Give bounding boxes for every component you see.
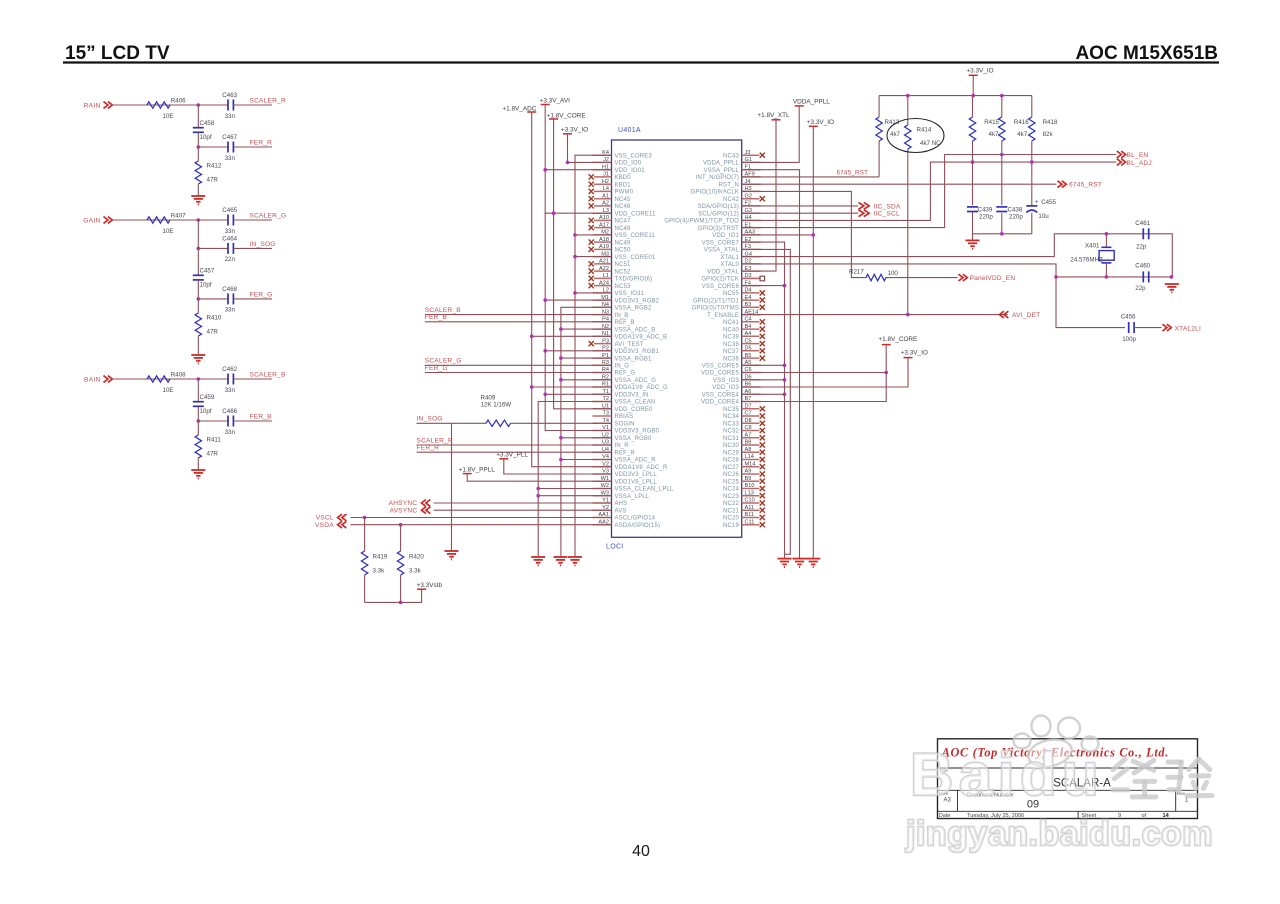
- svg-text:C455: C455: [1041, 199, 1056, 206]
- svg-text:VDD3V3_LPLL: VDD3V3_LPLL: [615, 472, 658, 478]
- svg-text:AVI_TEST: AVI_TEST: [615, 342, 644, 348]
- svg-text:NC29: NC29: [723, 450, 739, 456]
- svg-text:VSS_CORE7: VSS_CORE7: [702, 240, 740, 246]
- svg-text:NC27: NC27: [723, 465, 739, 471]
- svg-text:R415: R415: [984, 119, 999, 126]
- svg-text:BAIN: BAIN: [84, 376, 101, 383]
- svg-text:VDD_CORE0: VDD_CORE0: [615, 407, 654, 413]
- svg-text:R419: R419: [373, 554, 388, 561]
- svg-text:FER_R: FER_R: [250, 139, 273, 146]
- svg-text:4k7: 4k7: [989, 131, 1000, 138]
- svg-text:NC42: NC42: [723, 197, 739, 203]
- svg-text:AVI_DET: AVI_DET: [1012, 312, 1040, 319]
- svg-text:220p: 220p: [1009, 214, 1023, 221]
- svg-text:+1.8V_CORE: +1.8V_CORE: [878, 336, 917, 343]
- svg-text:47R: 47R: [207, 329, 219, 336]
- svg-text:+3.3V_IO: +3.3V_IO: [966, 68, 993, 75]
- svg-text:C463: C463: [222, 92, 237, 99]
- svg-text:NC40: NC40: [723, 327, 739, 333]
- svg-text:NC38: NC38: [723, 342, 739, 348]
- svg-text:R414: R414: [917, 127, 932, 134]
- svg-text:SCL/GPIO(12): SCL/GPIO(12): [698, 211, 739, 217]
- svg-text:IN_G: IN_G: [615, 364, 630, 370]
- svg-text:R409: R409: [481, 394, 496, 401]
- svg-text:VDD_IO1: VDD_IO1: [712, 233, 739, 239]
- svg-text:GPIO(3)/TRST: GPIO(3)/TRST: [698, 226, 740, 232]
- svg-text:XTAL0: XTAL0: [720, 262, 739, 268]
- svg-text:FER_G: FER_G: [250, 291, 273, 298]
- svg-text:C457: C457: [200, 268, 215, 275]
- svg-text:+3.3Vstb: +3.3Vstb: [417, 582, 443, 589]
- svg-text:NC49: NC49: [615, 240, 631, 246]
- svg-text:C461: C461: [1135, 220, 1150, 227]
- svg-text:+3.3V_PLL: +3.3V_PLL: [496, 451, 528, 458]
- svg-text:SCALER_G: SCALER_G: [250, 212, 287, 219]
- svg-text:C459: C459: [200, 394, 215, 401]
- svg-text:4k7: 4k7: [1017, 131, 1028, 138]
- svg-text:100p: 100p: [1122, 336, 1136, 343]
- svg-text:NC32: NC32: [723, 429, 739, 435]
- svg-text:R217: R217: [849, 269, 864, 276]
- svg-text:Baidu: Baidu: [910, 741, 1104, 808]
- svg-text:NC48: NC48: [615, 226, 631, 232]
- svg-text:NC35: NC35: [723, 407, 739, 413]
- svg-text:+3.3V_IO: +3.3V_IO: [561, 127, 588, 134]
- svg-text:AOC M15X651B: AOC M15X651B: [1075, 43, 1218, 64]
- svg-text:220p: 220p: [979, 214, 993, 221]
- svg-text:KBD0: KBD0: [615, 175, 632, 181]
- svg-text:LOCI: LOCI: [606, 544, 624, 551]
- svg-text:GPIO(2)/TCK: GPIO(2)/TCK: [701, 277, 739, 283]
- svg-text:IN_SOG: IN_SOG: [417, 416, 443, 423]
- svg-text:VDDA_PPLL: VDDA_PPLL: [703, 161, 740, 167]
- svg-text:REF_G: REF_G: [615, 371, 636, 377]
- svg-text:10pf: 10pf: [200, 408, 212, 415]
- svg-text:NC24: NC24: [723, 487, 739, 493]
- svg-text:AVS: AVS: [615, 508, 627, 514]
- svg-text:INT_N/GPIO(7): INT_N/GPIO(7): [696, 175, 739, 181]
- svg-text:GPIO(0)/T0/TMS: GPIO(0)/T0/TMS: [692, 306, 739, 312]
- svg-text:10E: 10E: [163, 228, 174, 235]
- svg-text:6745_RST: 6745_RST: [1069, 182, 1102, 189]
- svg-text:KBD1: KBD1: [615, 182, 632, 188]
- svg-text:47R: 47R: [207, 451, 219, 458]
- svg-text:SDA/GPIO(13): SDA/GPIO(13): [698, 204, 739, 210]
- svg-text:C462: C462: [222, 366, 237, 373]
- svg-text:NC28: NC28: [723, 458, 739, 464]
- svg-text:C467: C467: [222, 134, 237, 141]
- svg-text:10E: 10E: [163, 387, 174, 394]
- svg-text:+1.8V_PPLL: +1.8V_PPLL: [459, 466, 496, 473]
- svg-text:jingyan.baidu.com: jingyan.baidu.com: [905, 815, 1213, 853]
- svg-text:10E: 10E: [163, 113, 174, 120]
- svg-text:12K 1/16W: 12K 1/16W: [481, 401, 512, 408]
- svg-text:3.3k: 3.3k: [409, 568, 422, 575]
- svg-text:RAIN: RAIN: [84, 102, 101, 109]
- svg-text:VSS_IO31: VSS_IO31: [615, 291, 645, 297]
- svg-text:NC36: NC36: [723, 356, 739, 362]
- svg-text:VSDA: VSDA: [315, 522, 334, 529]
- svg-text:VSSA_PPLL: VSSA_PPLL: [704, 168, 740, 174]
- svg-text:22p: 22p: [1135, 285, 1146, 292]
- svg-text:VSCL: VSCL: [316, 515, 334, 522]
- svg-text:VDD_CORE4: VDD_CORE4: [701, 400, 740, 406]
- svg-text:NC31: NC31: [723, 436, 739, 442]
- svg-text:FER_R: FER_R: [417, 445, 440, 452]
- svg-text:VSS_CORE6: VSS_CORE6: [702, 284, 740, 290]
- svg-text:VDD_CORE11: VDD_CORE11: [615, 211, 657, 217]
- svg-text:VSS_CORE4: VSS_CORE4: [702, 393, 740, 399]
- svg-text:33n: 33n: [225, 387, 236, 394]
- svg-text:+3.3V_IO: +3.3V_IO: [901, 350, 928, 357]
- svg-text:C468: C468: [222, 286, 237, 293]
- svg-text:VSSA_RGB0: VSSA_RGB0: [615, 436, 653, 442]
- svg-text:C465: C465: [222, 207, 237, 214]
- svg-text:AHS: AHS: [615, 501, 628, 507]
- svg-text:SCALER_R: SCALER_R: [250, 97, 286, 104]
- svg-text:VSSA_ADC_R: VSSA_ADC_R: [615, 458, 657, 464]
- svg-text:NC22: NC22: [723, 501, 739, 507]
- svg-text:82k: 82k: [1043, 131, 1054, 138]
- svg-text:VSSA_ADC_B: VSSA_ADC_B: [615, 327, 656, 333]
- svg-text:T_ENABLE: T_ENABLE: [707, 313, 739, 319]
- svg-text:47R: 47R: [207, 177, 219, 184]
- svg-text:PWM0: PWM0: [615, 190, 634, 196]
- svg-text:VSS_CORE11: VSS_CORE11: [615, 233, 656, 239]
- svg-text:22n: 22n: [225, 256, 236, 263]
- svg-text:NC46: NC46: [615, 204, 631, 210]
- svg-text:SCALER_G: SCALER_G: [425, 358, 462, 365]
- svg-text:+3.3V_IO: +3.3V_IO: [807, 119, 834, 126]
- svg-text:RST_N: RST_N: [719, 182, 739, 188]
- svg-text:NC30: NC30: [723, 443, 739, 449]
- svg-text:IN_SOG: IN_SOG: [250, 241, 276, 248]
- svg-text:NC52: NC52: [615, 269, 631, 275]
- svg-text:VDD3V3_RGB1: VDD3V3_RGB1: [615, 349, 660, 355]
- svg-text:33n: 33n: [225, 228, 236, 235]
- svg-text:R416: R416: [1014, 119, 1029, 126]
- svg-text:R411: R411: [207, 437, 222, 444]
- svg-text:C466: C466: [222, 408, 237, 415]
- svg-text:NC26: NC26: [723, 472, 739, 478]
- svg-text:24.576MHZ: 24.576MHZ: [1070, 256, 1103, 263]
- svg-text:U401A: U401A: [618, 127, 641, 134]
- svg-text:C458: C458: [200, 120, 215, 127]
- svg-text:VSS_IO3: VSS_IO3: [713, 378, 740, 384]
- svg-text:VDD3V3_RGB2: VDD3V3_RGB2: [615, 298, 660, 304]
- svg-text:C460: C460: [1135, 263, 1150, 270]
- svg-text:4k7: 4k7: [890, 131, 901, 138]
- svg-text:NC34: NC34: [723, 414, 739, 420]
- svg-text:NC39: NC39: [723, 335, 739, 341]
- svg-text:SCALER_B: SCALER_B: [425, 307, 461, 314]
- svg-text:GPIO(2)/T1/TD1: GPIO(2)/T1/TD1: [693, 298, 740, 304]
- svg-text:RBIAS: RBIAS: [615, 414, 634, 420]
- svg-text:FER_B: FER_B: [250, 413, 273, 420]
- svg-text:NC55: NC55: [723, 291, 739, 297]
- svg-text:XTAL1: XTAL1: [720, 255, 739, 261]
- svg-text:NC23: NC23: [723, 494, 739, 500]
- svg-text:+1.8V_XTL: +1.8V_XTL: [757, 112, 790, 119]
- svg-text:6745_RST: 6745_RST: [837, 170, 869, 177]
- svg-text:ASCL/GPIO14: ASCL/GPIO14: [615, 516, 656, 522]
- svg-text:C464: C464: [222, 235, 237, 242]
- svg-text:+: +: [1035, 200, 1039, 206]
- svg-text:NC25: NC25: [723, 479, 739, 485]
- svg-text:VSSA_XTAL: VSSA_XTAL: [704, 248, 740, 254]
- svg-text:15” LCD TV: 15” LCD TV: [65, 43, 170, 64]
- svg-text:NC53: NC53: [615, 284, 631, 290]
- svg-text:10pf: 10pf: [200, 282, 212, 289]
- svg-text:NC50: NC50: [615, 248, 631, 254]
- svg-text:33n: 33n: [225, 113, 236, 120]
- svg-text:22p: 22p: [1136, 243, 1147, 250]
- svg-text:VSSA_LPLL: VSSA_LPLL: [615, 494, 650, 500]
- svg-text:IN_R: IN_R: [615, 443, 630, 449]
- svg-text:VDD_IO01: VDD_IO01: [615, 168, 646, 174]
- svg-text:FER_G: FER_G: [425, 365, 448, 372]
- svg-text:VDD_IO3: VDD_IO3: [712, 385, 739, 391]
- svg-text:VSS_CORE5: VSS_CORE5: [702, 364, 740, 370]
- svg-text:NC43: NC43: [723, 153, 739, 159]
- svg-text:VSSA_RGB1: VSSA_RGB1: [615, 356, 653, 362]
- svg-text:C439: C439: [978, 206, 993, 213]
- svg-text:XTAL2LI: XTAL2LI: [1175, 326, 1202, 333]
- svg-text:BL_EN: BL_EN: [1127, 152, 1149, 159]
- svg-text:NC45: NC45: [615, 197, 631, 203]
- svg-text:REF_R: REF_R: [615, 450, 636, 456]
- svg-text:IIC_SDA: IIC_SDA: [874, 203, 901, 210]
- svg-text:VDD1V8_LPLL: VDD1V8_LPLL: [615, 479, 658, 485]
- svg-text:AVSYNC: AVSYNC: [389, 507, 417, 514]
- svg-text:NC51: NC51: [615, 262, 631, 268]
- svg-text:R408: R408: [171, 372, 186, 379]
- svg-text:FER_B: FER_B: [425, 314, 448, 321]
- svg-text:33n: 33n: [225, 155, 236, 162]
- svg-text:GPIO(10)9/ACLK: GPIO(10)9/ACLK: [691, 190, 739, 196]
- svg-text:VDDA1V8_ADC_B: VDDA1V8_ADC_B: [615, 335, 668, 341]
- svg-text:SCALER_B: SCALER_B: [250, 371, 286, 378]
- svg-text:NC41: NC41: [723, 320, 739, 326]
- svg-text:VDDA1V8_ADC_G: VDDA1V8_ADC_G: [615, 385, 668, 391]
- svg-text:NC19: NC19: [723, 523, 739, 529]
- svg-text:33n: 33n: [225, 307, 236, 314]
- svg-text:100: 100: [888, 270, 899, 277]
- svg-text:R410: R410: [207, 315, 222, 322]
- svg-text:IIC_SCL: IIC_SCL: [874, 211, 900, 218]
- svg-text:VDDA_PPLL: VDDA_PPLL: [793, 99, 830, 106]
- svg-text:R406: R406: [171, 98, 186, 105]
- svg-text:VSS_CORE3: VSS_CORE3: [615, 153, 653, 159]
- svg-text:PanelVDD_EN: PanelVDD_EN: [970, 275, 1016, 282]
- svg-text:AHSYNC: AHSYNC: [389, 500, 418, 507]
- svg-text:40: 40: [632, 843, 650, 860]
- svg-text:SOGIN: SOGIN: [615, 422, 635, 428]
- svg-text:R412: R412: [207, 163, 222, 170]
- svg-text:VDDA1V8_ADC_R: VDDA1V8_ADC_R: [615, 465, 668, 471]
- svg-text:VSS_CORE01: VSS_CORE01: [615, 255, 656, 261]
- svg-text:GAIN: GAIN: [83, 217, 100, 224]
- svg-text:10pf: 10pf: [200, 134, 212, 141]
- svg-text:VDD3V3_RGB0: VDD3V3_RGB0: [615, 429, 660, 435]
- svg-text:R407: R407: [171, 213, 186, 220]
- svg-text:+3.3V_AVI: +3.3V_AVI: [540, 98, 570, 105]
- svg-text:33n: 33n: [225, 429, 236, 436]
- svg-text:R420: R420: [409, 554, 424, 561]
- svg-text:VDD_IO0: VDD_IO0: [615, 161, 642, 167]
- svg-text:NC47: NC47: [615, 219, 631, 225]
- svg-text:REF_B: REF_B: [615, 320, 635, 326]
- svg-text:ASDA/GPIO(15): ASDA/GPIO(15): [615, 523, 661, 529]
- svg-text:TXD/GPIO(6): TXD/GPIO(6): [615, 277, 653, 283]
- svg-text:NC33: NC33: [723, 422, 739, 428]
- svg-text:GPIO(4)/PWM1/TCP_TDO: GPIO(4)/PWM1/TCP_TDO: [664, 219, 739, 225]
- svg-text:BL_ADJ: BL_ADJ: [1127, 160, 1152, 167]
- svg-text:NC21: NC21: [723, 508, 739, 514]
- svg-text:VSSA_ADC_G: VSSA_ADC_G: [615, 378, 657, 384]
- svg-text:VSSA_CLEAN_LPLL: VSSA_CLEAN_LPLL: [615, 487, 674, 493]
- svg-text:R418: R418: [1043, 119, 1058, 126]
- svg-text:VDD_XTAL: VDD_XTAL: [707, 269, 739, 275]
- svg-text:10u: 10u: [1038, 213, 1049, 220]
- svg-text:NC20: NC20: [723, 516, 739, 522]
- svg-text:3.3k: 3.3k: [373, 568, 386, 575]
- svg-text:SCALER_R: SCALER_R: [417, 437, 453, 444]
- svg-text:VDD_CORE5: VDD_CORE5: [701, 371, 740, 377]
- svg-text:C438: C438: [1008, 206, 1023, 213]
- svg-text:VSSA_CLEAN: VSSA_CLEAN: [615, 400, 656, 406]
- svg-text:NC37: NC37: [723, 349, 739, 355]
- svg-text:X401: X401: [1085, 242, 1100, 249]
- svg-text:IN_B: IN_B: [615, 313, 629, 319]
- svg-text:VDD3V3_IN: VDD3V3_IN: [615, 393, 649, 399]
- svg-text:C456: C456: [1121, 314, 1136, 321]
- svg-text:VSSA_RGB2: VSSA_RGB2: [615, 306, 653, 312]
